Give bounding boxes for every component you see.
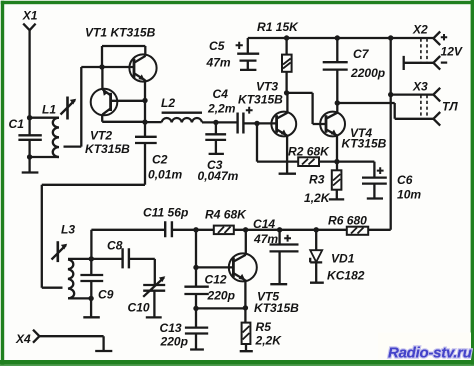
svg-text:2200p: 2200p <box>350 66 385 80</box>
svg-text:0,01m: 0,01m <box>148 168 182 182</box>
svg-text:C8: C8 <box>107 239 123 253</box>
svg-text:C1: C1 <box>9 117 25 131</box>
svg-text:C14: C14 <box>253 217 275 231</box>
svg-text:C9: C9 <box>98 288 114 302</box>
svg-text:C10: C10 <box>128 301 150 315</box>
svg-text:47m: 47m <box>253 232 278 246</box>
svg-text:10m: 10m <box>397 188 421 202</box>
svg-text:KT315B: KT315B <box>85 142 130 156</box>
svg-text:C4: C4 <box>213 87 229 101</box>
svg-text:C5: C5 <box>209 39 225 53</box>
svg-text:KT315B: KT315B <box>342 137 387 151</box>
svg-text:VT3: VT3 <box>256 80 278 94</box>
svg-text:2,2m: 2,2m <box>207 102 236 116</box>
svg-text:X2: X2 <box>412 23 428 37</box>
svg-text:X3: X3 <box>412 80 428 94</box>
svg-text:VT1 KT315B: VT1 KT315B <box>85 26 156 40</box>
svg-text:KT315B: KT315B <box>238 93 283 107</box>
svg-text:1,2K: 1,2K <box>304 191 331 205</box>
svg-text:0,047m: 0,047m <box>198 169 239 183</box>
svg-text:KT315B: KT315B <box>254 301 299 315</box>
svg-text:L2: L2 <box>161 96 175 110</box>
svg-text:C13: C13 <box>160 321 182 335</box>
svg-text:C7: C7 <box>353 47 370 61</box>
svg-text:C11 56p: C11 56p <box>143 206 188 220</box>
svg-text:C6: C6 <box>397 173 413 187</box>
svg-text:VD1: VD1 <box>331 252 355 266</box>
svg-text:R5: R5 <box>256 320 272 334</box>
svg-text:L1: L1 <box>42 103 56 117</box>
svg-text:KC182: KC182 <box>327 269 365 283</box>
svg-text:L3: L3 <box>61 223 75 237</box>
svg-text:VT2: VT2 <box>90 129 112 143</box>
svg-text:220p: 220p <box>160 335 188 349</box>
svg-text:R4 68K: R4 68K <box>205 208 247 222</box>
svg-text:47m: 47m <box>206 56 231 70</box>
svg-text:C2: C2 <box>152 153 168 167</box>
svg-text:C12: C12 <box>205 273 227 287</box>
svg-text:X1: X1 <box>22 9 38 23</box>
svg-text:R2 68K: R2 68K <box>288 145 330 159</box>
svg-text:2,2K: 2,2K <box>255 334 283 348</box>
svg-text:R3: R3 <box>309 173 325 187</box>
svg-text:ТЛ: ТЛ <box>442 100 458 114</box>
svg-text:R1 15K: R1 15K <box>257 20 299 34</box>
svg-text:R6 680: R6 680 <box>328 214 367 228</box>
svg-text:Radio-stv.ru: Radio-stv.ru <box>388 345 472 362</box>
svg-text:12V: 12V <box>441 45 463 59</box>
svg-text:220p: 220p <box>207 289 235 303</box>
svg-text:X4: X4 <box>15 332 31 346</box>
